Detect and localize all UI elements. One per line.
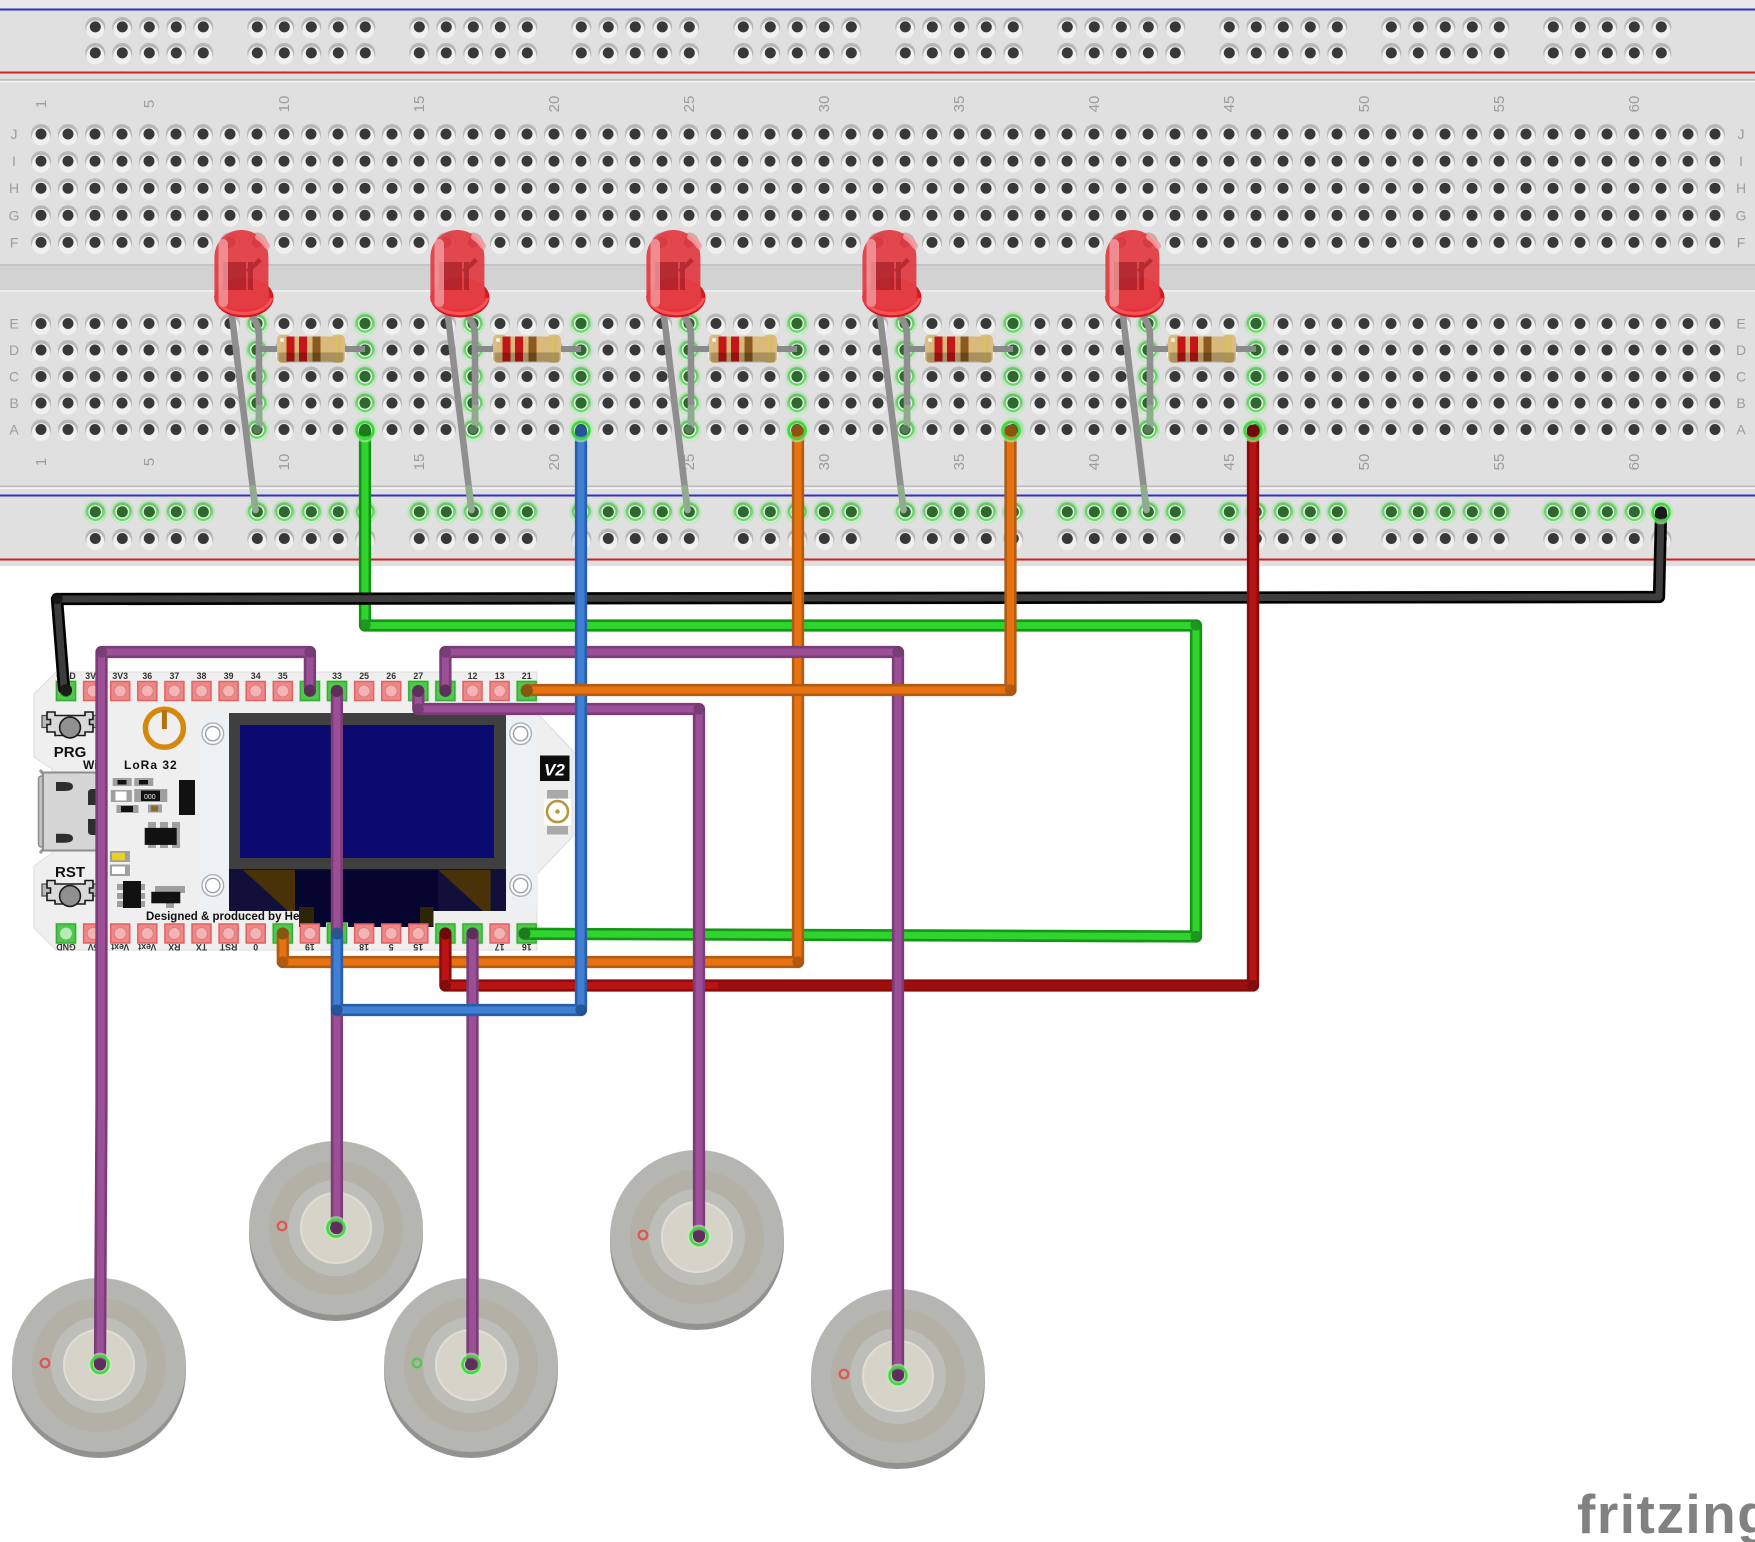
svg-text:A: A xyxy=(9,422,19,438)
svg-text:26: 26 xyxy=(386,671,396,681)
svg-text:J: J xyxy=(11,126,18,142)
svg-text:C: C xyxy=(9,369,19,385)
svg-text:GND: GND xyxy=(56,942,76,952)
svg-text:40: 40 xyxy=(1086,96,1103,113)
svg-text:J: J xyxy=(1738,126,1745,142)
svg-text:15: 15 xyxy=(411,96,428,113)
svg-text:H: H xyxy=(1736,180,1746,196)
purple wire pin17 to piezo3 xyxy=(466,936,478,1364)
svg-text:1: 1 xyxy=(33,100,50,108)
orange wire pin21 to A37 xyxy=(527,431,1011,690)
svg-text:27: 27 xyxy=(413,671,423,681)
svg-text:000: 000 xyxy=(144,794,156,801)
svg-text:20: 20 xyxy=(546,96,563,113)
svg-text:Vext: Vext xyxy=(111,942,129,952)
svg-text:F: F xyxy=(10,234,19,250)
svg-text:5: 5 xyxy=(141,458,158,466)
gold power-symbol ring xyxy=(145,709,183,747)
svg-text:G: G xyxy=(9,207,20,223)
orange wire pin22 to A29 xyxy=(283,431,798,962)
svg-text:D: D xyxy=(9,342,19,358)
svg-text:30: 30 xyxy=(816,96,833,113)
svg-text:18: 18 xyxy=(359,942,369,952)
LED2 red 5mm (anode col x=473) xyxy=(430,230,489,510)
black wire GND xyxy=(57,514,1661,688)
svg-text:33: 33 xyxy=(332,671,342,681)
svg-text:55: 55 xyxy=(1491,454,1508,471)
piezo disc P5 xyxy=(811,1289,985,1469)
piezo disc P4 xyxy=(610,1150,784,1330)
wire end tips xyxy=(1653,504,1670,521)
svg-text:35: 35 xyxy=(951,454,968,471)
svg-text:E: E xyxy=(9,316,18,332)
svg-text:45: 45 xyxy=(1221,454,1238,471)
antenna U.FL connector xyxy=(547,801,568,822)
svg-text:10: 10 xyxy=(276,96,293,113)
purple wire piezo1 to pin32 xyxy=(100,652,310,1364)
svg-text:60: 60 xyxy=(1626,96,1643,113)
svg-text:I: I xyxy=(1739,153,1743,169)
svg-text:20: 20 xyxy=(546,454,563,471)
svg-text:36: 36 xyxy=(142,671,152,681)
svg-text:16: 16 xyxy=(522,942,532,952)
green wire A13 to pin16 xyxy=(365,431,1196,937)
svg-text:5: 5 xyxy=(141,100,158,108)
resistor R2 (red-red-brown-gold) xyxy=(475,335,581,364)
svg-text:39: 39 xyxy=(224,671,234,681)
LED3 red 5mm (anode col x=689) xyxy=(646,230,705,510)
svg-text:34: 34 xyxy=(251,671,261,681)
svg-text:3V3: 3V3 xyxy=(112,671,128,681)
svg-text:50: 50 xyxy=(1356,96,1373,113)
piezo disc P3 xyxy=(384,1278,558,1458)
resistor R4 (red-red-brown-gold) xyxy=(907,335,1013,364)
svg-text:I: I xyxy=(12,153,16,169)
svg-text:19: 19 xyxy=(305,942,315,952)
resistor R5 (red-red-brown-gold) xyxy=(1150,335,1256,364)
svg-text:5: 5 xyxy=(389,942,394,952)
svg-text:F: F xyxy=(1737,234,1746,250)
purple wire piezo5 to pin14 xyxy=(445,652,898,1375)
svg-text:TX: TX xyxy=(196,942,207,952)
svg-text:RX: RX xyxy=(168,942,180,952)
svg-text:0: 0 xyxy=(253,942,258,952)
micro-USB connector xyxy=(39,770,98,853)
svg-text:35: 35 xyxy=(278,671,288,681)
svg-text:fritzing: fritzing xyxy=(1577,1483,1755,1542)
svg-text:35: 35 xyxy=(951,96,968,113)
svg-text:10: 10 xyxy=(276,454,293,471)
svg-text:37: 37 xyxy=(170,671,180,681)
svg-text:17: 17 xyxy=(495,942,505,952)
svg-text:15: 15 xyxy=(411,454,428,471)
svg-text:45: 45 xyxy=(1221,96,1238,113)
piezo disc P2 xyxy=(249,1141,423,1321)
LED4 red 5mm (anode col x=905) xyxy=(862,230,921,510)
piezo disc P1 xyxy=(12,1278,186,1458)
svg-text:G: G xyxy=(1736,207,1747,223)
RST button xyxy=(42,881,98,907)
svg-text:38: 38 xyxy=(197,671,207,681)
svg-text:50: 50 xyxy=(1356,454,1373,471)
svg-text:V2: V2 xyxy=(544,761,565,780)
svg-text:15: 15 xyxy=(413,942,423,952)
OLED display xyxy=(198,713,538,927)
svg-text:40: 40 xyxy=(1086,454,1103,471)
svg-text:60: 60 xyxy=(1626,454,1643,471)
red wire pin2 to A46 xyxy=(445,431,1253,986)
svg-text:LoRa 32: LoRa 32 xyxy=(124,758,178,772)
V2 label xyxy=(540,756,570,782)
svg-text:13: 13 xyxy=(495,671,505,681)
svg-text:A: A xyxy=(1736,422,1746,438)
svg-text:RST: RST xyxy=(219,942,237,952)
breadboard full-size (63 cols, power rails) xyxy=(0,0,1755,566)
svg-text:E: E xyxy=(1736,316,1745,332)
purple wire pin27 to piezo4 xyxy=(418,692,699,1236)
Heltec WiFi LoRa 32 V2 board xyxy=(34,671,573,952)
LED1 red 5mm (anode col x=257) xyxy=(214,230,273,510)
purple wire pin33 to piezo2 xyxy=(331,691,343,1228)
PRG button xyxy=(42,712,98,738)
resistor R1 (red-red-brown-gold) xyxy=(259,335,365,364)
svg-text:55: 55 xyxy=(1491,96,1508,113)
svg-text:B: B xyxy=(9,395,18,411)
svg-text:C: C xyxy=(1736,369,1746,385)
svg-text:12: 12 xyxy=(468,671,478,681)
svg-text:25: 25 xyxy=(681,96,698,113)
svg-text:25: 25 xyxy=(359,671,369,681)
resistor R3 (red-red-brown-gold) xyxy=(691,335,797,364)
svg-text:21: 21 xyxy=(522,671,532,681)
svg-text:Vext: Vext xyxy=(138,942,156,952)
svg-text:H: H xyxy=(9,180,19,196)
svg-text:RST: RST xyxy=(55,864,85,881)
wire bendpoints xyxy=(51,593,62,604)
svg-text:30: 30 xyxy=(816,454,833,471)
svg-text:PRG: PRG xyxy=(54,744,87,761)
LED5 red 5mm (anode col x=1148) xyxy=(1105,230,1164,510)
svg-text:D: D xyxy=(1736,342,1746,358)
svg-text:B: B xyxy=(1736,395,1745,411)
blue wire A21 to pin23 xyxy=(337,431,581,1010)
svg-text:1: 1 xyxy=(33,458,50,466)
